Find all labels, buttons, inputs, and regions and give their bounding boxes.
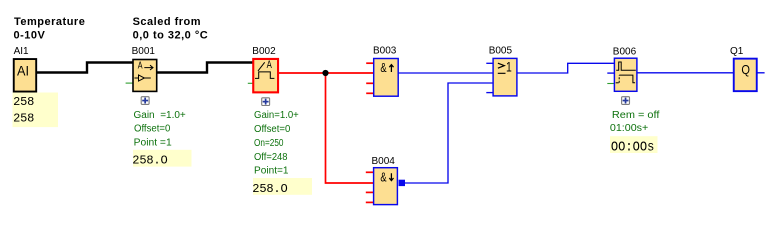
svg-text:1: 1 xyxy=(506,60,512,75)
svg-text:On=250: On=250 xyxy=(254,138,284,149)
button B006 expand xyxy=(622,97,630,105)
svg-text:Point=1: Point=1 xyxy=(254,166,289,177)
block B004 (AND falling edge) xyxy=(374,168,398,205)
svg-text:A: A xyxy=(267,59,273,71)
wire B004 to B005 input 3 (blue) xyxy=(405,83,493,183)
wire stub B005 input 1 (blue) xyxy=(486,62,492,64)
svg-text:Q: Q xyxy=(741,63,750,77)
wire stub B003 input 3 (red) xyxy=(366,82,373,84)
node B004 output marker (blue square) xyxy=(399,180,405,186)
symbol B002 pulse xyxy=(255,72,274,79)
highlight AI1 values background xyxy=(13,93,59,128)
button B001 expand xyxy=(141,97,149,105)
wire junction branch to B004 (red) xyxy=(326,73,374,183)
wire B002 to B003 (red) xyxy=(279,72,373,74)
svg-text:258.O: 258.O xyxy=(132,154,167,168)
svg-text:&: & xyxy=(380,61,387,75)
wire stub B004 input 1 (red) xyxy=(366,171,373,173)
wire stub B003 input 4 (red) xyxy=(366,92,373,94)
symbol B001 amplifier triangle xyxy=(134,75,150,81)
wire B006 to Q1 (blue) xyxy=(638,72,734,74)
wire stub Q1 output (blue) xyxy=(758,72,765,74)
block AI1 (analog input) xyxy=(14,59,36,92)
svg-text:B005: B005 xyxy=(489,46,513,57)
svg-text:Off=248: Off=248 xyxy=(254,152,288,163)
svg-text:01:00s+: 01:00s+ xyxy=(610,123,649,134)
block B002 (analog threshold trigger, red border) xyxy=(253,59,278,92)
symbol B006 trigger pulse trace xyxy=(616,62,636,70)
svg-text:AI: AI xyxy=(17,64,29,79)
wire stub B002 Par (green) xyxy=(248,82,253,84)
svg-text:0-10V: 0-10V xyxy=(14,30,46,42)
wire stub B005 input 4 (blue) xyxy=(486,92,492,94)
wire stub B004 input 4 (red) xyxy=(366,201,373,203)
symbol B002 ramp slash xyxy=(258,62,265,71)
symbol B005 >=1 xyxy=(498,63,506,73)
wire stub B006 R input (blue) xyxy=(607,72,614,74)
button B002 expand xyxy=(262,98,270,106)
svg-text:258.O: 258.O xyxy=(252,182,287,196)
highlight B002 value background xyxy=(253,178,312,195)
svg-text:A: A xyxy=(138,60,143,72)
svg-text:B003: B003 xyxy=(373,46,397,57)
wire B003 to B005 (blue) xyxy=(398,72,493,74)
svg-text:OO:OOs: OO:OOs xyxy=(611,139,655,155)
svg-text:Offset=0: Offset=0 xyxy=(254,124,291,135)
wire stub B004 input 3 (red) xyxy=(366,191,373,193)
svg-text:Offset=0: Offset=0 xyxy=(134,124,171,135)
svg-text:B001: B001 xyxy=(132,46,156,57)
svg-text:Point =1: Point =1 xyxy=(134,137,173,148)
svg-text:Temperature: Temperature xyxy=(14,16,85,28)
svg-text:B004: B004 xyxy=(372,156,396,167)
node junction dot xyxy=(322,70,328,76)
svg-text:Rem = off: Rem = off xyxy=(612,110,660,121)
svg-text:B006: B006 xyxy=(613,47,637,58)
wire stub B006 Par (green) xyxy=(607,83,614,85)
block B001 (analog amplifier) xyxy=(133,60,157,92)
svg-text:0,0 to 32,0 °C: 0,0 to 32,0 °C xyxy=(133,30,209,42)
wire B005 to B006 (blue) xyxy=(517,63,614,73)
highlight B006 value background xyxy=(610,136,658,153)
svg-text:258: 258 xyxy=(13,112,34,126)
svg-text:258: 258 xyxy=(13,95,34,109)
block Q1 (output) xyxy=(734,59,757,92)
wire stub B003 input 1 (red) xyxy=(366,62,373,64)
svg-text:&: & xyxy=(380,170,387,184)
wire stub B001 Par (green) xyxy=(126,82,133,84)
svg-text:B002: B002 xyxy=(252,46,276,57)
svg-text:Scaled from: Scaled from xyxy=(133,16,201,28)
block B005 (OR) xyxy=(493,58,517,96)
symbol B006 output pulse trace xyxy=(616,82,619,84)
svg-text:Gain =1.0+: Gain =1.0+ xyxy=(134,110,186,121)
block B003 (AND rising edge) xyxy=(374,59,399,97)
svg-text:Gain=1.0+: Gain=1.0+ xyxy=(254,110,299,121)
wire AI1 to B001 (black) xyxy=(37,63,133,73)
block B006 (off delay timer) xyxy=(614,58,637,91)
svg-text:AI1: AI1 xyxy=(14,46,29,57)
svg-text:Q1: Q1 xyxy=(730,46,744,57)
wire B001 to B002 (black) xyxy=(157,63,254,73)
highlight B001 value background xyxy=(133,150,192,167)
